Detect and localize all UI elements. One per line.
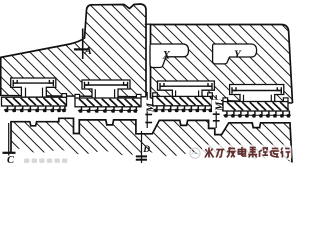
faint watermark text bottom-left (24, 159, 67, 163)
S1 segment head (13, 80, 53, 86)
datum line M right (213, 95, 220, 128)
G2 T-groove (82, 80, 130, 98)
datum line A (74, 29, 88, 60)
datum line M left (145, 92, 152, 128)
svg-text:M: M (215, 101, 226, 112)
segment S2 foot plate (75, 94, 141, 106)
svg-text:C: C (7, 155, 15, 166)
segment S3 teeth row (153, 105, 213, 112)
watermark text 火力发电集控运行 (stroke mimic) (202, 145, 292, 161)
steam pocket X (150, 44, 189, 68)
G3 T-groove (158, 81, 215, 99)
S1 segment neck (26, 88, 43, 98)
segment S1 foot plate (2, 94, 67, 106)
label M right (212, 100, 221, 112)
segment S4 foot plate (223, 98, 289, 111)
S2 segment head (85, 82, 128, 88)
G1 T-groove (11, 78, 56, 96)
svg-text:D: D (142, 145, 150, 155)
gap between casing halves (top joint line) (145, 23, 152, 25)
G4 T-groove (230, 85, 284, 104)
datum line C (3, 123, 16, 156)
datum line D (136, 131, 147, 163)
S4 segment neck (244, 95, 272, 104)
S2 segment neck (95, 89, 114, 98)
segment S1 teeth row (4, 106, 66, 113)
label M left (143, 100, 152, 112)
watermark logo circle (190, 148, 200, 158)
casing right half (hatched body) (151, 25, 293, 104)
shaft (rotor, hatched) (11, 118, 292, 162)
S3 segment head (160, 83, 212, 89)
segment S2 teeth row (78, 106, 138, 112)
S3 segment neck (176, 90, 199, 99)
svg-text:M: M (145, 102, 156, 113)
segment S3 foot plate (153, 93, 219, 106)
svg-text:A: A (84, 45, 92, 57)
casing left half (hatched body) (0, 4, 146, 97)
svg-text:X: X (162, 49, 171, 61)
segment S4 teeth row (223, 111, 290, 118)
steam pocket Y (213, 44, 257, 64)
S4 segment head (232, 87, 281, 93)
